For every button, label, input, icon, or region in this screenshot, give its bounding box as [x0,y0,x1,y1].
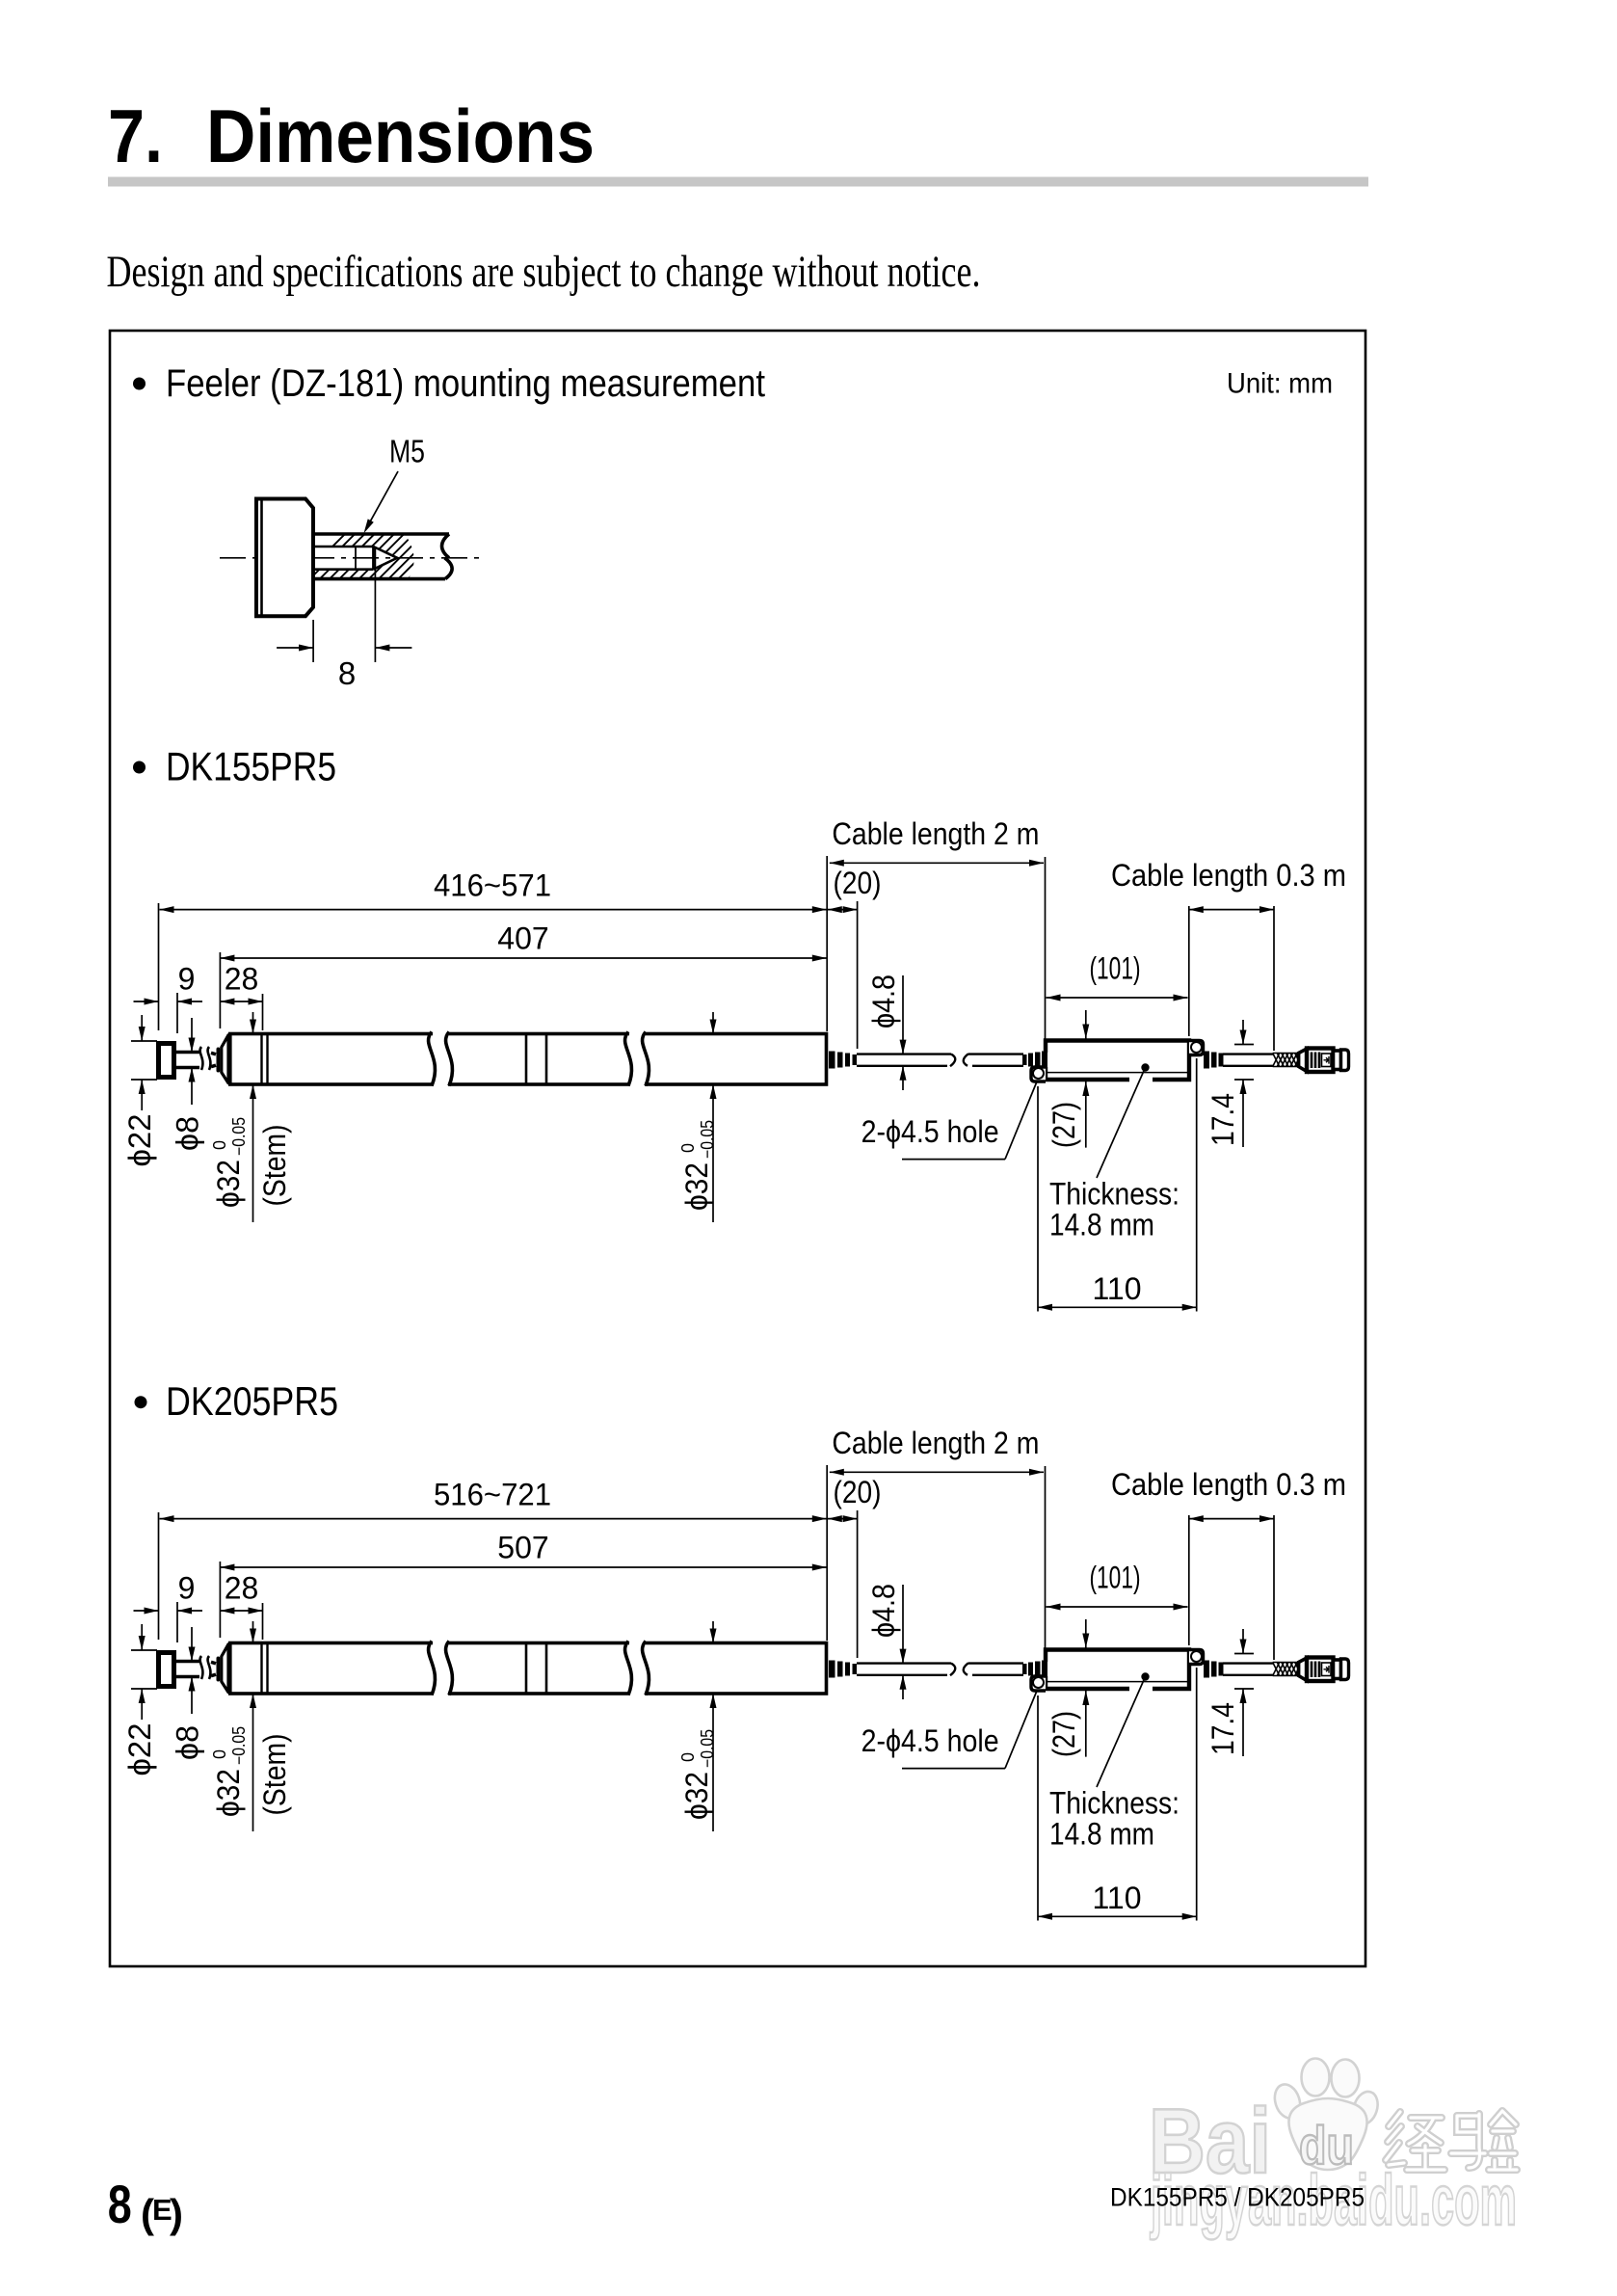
svg-text:ϕ8: ϕ8 [171,1116,205,1151]
contact disc ticks (phi22) [131,1649,157,1651]
barrel mid joint lines [525,1644,528,1693]
connector icon [1322,1663,1332,1676]
bullet: DK205PR5 heading [135,1396,147,1408]
leader Thickness [1097,1068,1146,1179]
connector collar [1334,1051,1341,1070]
svg-text:Design and specifications are: Design and specifications are subject to… [107,247,981,297]
barrel nose cone [222,1644,228,1693]
svg-text:ϕ22: ϕ22 [122,1723,157,1776]
connector body [1307,1049,1334,1073]
svg-text:28: 28 [225,1571,259,1606]
cable (2 m) [857,1662,951,1664]
extension line: cable boot end (x=889) [857,1510,859,1658]
svg-text:Cable length 2 m: Cable length 2 m [832,816,1039,851]
connector taper [1299,1049,1307,1072]
extension line: 28 right (x=272) [262,994,264,1030]
svg-text:DK155PR5: DK155PR5 [166,744,336,789]
dimension 17.4 [1234,1653,1254,1655]
svg-text:(101): (101) [1090,951,1141,986]
svg-text:Cable length 0.3 m: Cable length 0.3 m [1111,1467,1346,1502]
svg-text:0: 0 [678,1752,698,1762]
connector icon [1322,1054,1332,1067]
svg-text:Cable length 0.3 m: Cable length 0.3 m [1111,858,1346,893]
svg-text:(27): (27) [1047,1102,1081,1148]
extension line: overall-length left (x=164) [158,1512,160,1640]
contact disc ticks (phi22) [131,1040,157,1042]
svg-text:−0.05: −0.05 [698,1120,717,1159]
svg-text:Feeler (DZ-181) mounting measu: Feeler (DZ-181) mounting measurement [166,362,765,405]
outer frame [110,331,1365,1966]
svg-text:ϕ32: ϕ32 [679,1162,714,1211]
dimension 9 [134,1610,159,1612]
svg-text:110: 110 [1092,1881,1141,1915]
svg-text:(20): (20) [834,1475,882,1509]
cable break [950,1054,968,1066]
bullet: Feeler heading [133,378,146,390]
cable break [950,1663,968,1675]
cable boot out of relay box [1204,1052,1209,1069]
svg-text:ϕ4.8: ϕ4.8 [866,974,901,1028]
svg-text:−0.05: −0.05 [229,1726,249,1765]
dimension phi32 mid-barrel [712,1621,714,1643]
title underline bar [108,177,1368,187]
svg-text:−0.05: −0.05 [698,1729,717,1768]
spindle break [200,1047,211,1070]
feeler thread bore [313,546,373,548]
svg-text:516~721: 516~721 [434,1478,551,1512]
cable boot out of relay box [1204,1661,1209,1678]
dimension Cable length 2 m [830,862,1044,864]
feeler knurled head [256,499,313,617]
svg-text:9: 9 [178,1571,196,1606]
extension line: cable boot end (x=889) [857,901,859,1049]
dimension 507 [220,1566,826,1568]
dimension phi4.8 [902,1585,904,1664]
svg-text:17.4: 17.4 [1206,1702,1240,1755]
dimension 9 [134,1001,159,1002]
svg-text:407: 407 [497,921,548,956]
cable boot at barrel [829,1052,835,1069]
svg-text:Unit: mm: Unit: mm [1227,368,1333,400]
svg-text:2-ϕ4.5 hole: 2-ϕ4.5 hole [862,1114,999,1149]
probe contact disc [159,1044,174,1078]
barrel mid joint lines [525,1035,528,1083]
feeler centerline [220,557,482,559]
left ear screw [1033,1677,1044,1688]
dimension (20) [828,909,858,911]
relay box left mounting ear [1031,1676,1046,1691]
right ear screw [1191,1651,1202,1662]
extension line: cable 2m right (x=1084) [1045,857,1047,1051]
barrel break left [433,1641,448,1696]
svg-text:(Stem): (Stem) [257,1125,292,1207]
spindle break [200,1656,211,1679]
extension line: cable 0.3m right (x=1322) [1273,906,1275,1051]
svg-text:ϕ8: ϕ8 [171,1725,205,1760]
svg-text:17.4: 17.4 [1206,1093,1240,1146]
cable boot at barrel [829,1661,835,1678]
cable (0.3 m) [1223,1662,1273,1664]
dimension phi32 mid-barrel [712,1012,714,1034]
dimension phi4.8 [902,975,904,1055]
connector braid [1273,1663,1307,1676]
svg-text:416~571: 416~571 [434,868,551,903]
dimension (101) [1047,997,1188,999]
dimension 28 [220,1001,262,1002]
cable (2 m) [857,1053,951,1055]
dimension Cable length 2 m [830,1471,1044,1473]
probe barrel [230,1643,827,1695]
svg-text:ϕ4.8: ϕ4.8 [866,1584,901,1638]
svg-text:−0.05: −0.05 [229,1117,249,1156]
dimension 28 [220,1610,262,1612]
right ear screw [1191,1042,1202,1053]
dimension overall length 416~571 [160,909,827,911]
barrel break left [433,1031,448,1087]
dimension Cable length 0.3 m [1189,909,1274,911]
extension line: cable 2m right (x=1084) [1045,1466,1047,1660]
dimension (27) [1085,1010,1087,1039]
svg-text:Thickness:: Thickness: [1049,1786,1180,1821]
extension line: barrel end (x=858) [826,1465,828,1641]
extension line: 9 right / disc right [176,1602,178,1642]
svg-text:DK205PR5: DK205PR5 [166,1378,338,1424]
svg-text:9: 9 [178,962,196,997]
extension line: cable 0.3m right (x=1322) [1273,1515,1275,1660]
probe barrel [230,1034,827,1085]
svg-text:14.8 mm: 14.8 mm [1049,1817,1154,1852]
dimension (27) [1085,1619,1087,1648]
connector end cap [1341,1659,1349,1680]
connector collar [1334,1660,1341,1679]
svg-text:(101): (101) [1090,1561,1141,1595]
svg-text:(20): (20) [834,866,882,900]
svg-text:M5: M5 [389,434,425,469]
dimension Cable length 0.3 m [1189,1518,1274,1520]
cable boot into relay box [1022,1664,1027,1674]
svg-text:DK155PR5 / DK205PR5: DK155PR5 / DK205PR5 [1110,2183,1365,2212]
extension line: box right (x=1234) [1188,906,1190,1036]
dimension phi32 (Stem) [252,1012,254,1034]
spindle tip [217,1657,221,1682]
extension line: 407 &amp; 28 left (x=228) [219,1562,221,1638]
relay box body [1046,1041,1189,1081]
extension line: 407 &amp; 28 left (x=228) [219,952,221,1028]
spindle tip [217,1048,221,1073]
leader 2-phi4.5 hole [902,1768,1005,1770]
dimension 8 (feeler) [312,620,314,662]
relay box lid line [1047,1072,1188,1074]
svg-text:0: 0 [210,1140,229,1150]
svg-text:110: 110 [1092,1271,1141,1306]
dimension phi22 [141,1624,143,1650]
svg-text:Thickness:: Thickness: [1049,1177,1180,1212]
cable (0.3 m) [1223,1053,1273,1055]
extension line: 28 right (x=272) [262,1603,264,1640]
dimension (20) [828,1518,858,1520]
extension line: overall-length left (x=164) [158,903,160,1030]
connector body [1307,1658,1334,1682]
svg-text:8: 8 [108,2174,132,2234]
svg-text:14.8 mm: 14.8 mm [1049,1208,1154,1242]
connector taper [1299,1658,1307,1681]
cable boot into relay box [1022,1055,1027,1065]
probe spindle (phi8) [176,1660,199,1664]
barrel nose cone [222,1035,228,1083]
relay box right mounting ear [1189,1650,1204,1665]
barrel break right [629,1641,645,1696]
connector end cap [1341,1050,1349,1071]
dimension phi8 [191,1018,193,1053]
svg-text:(27): (27) [1047,1711,1081,1757]
watermark Baidu Jingyan [1149,2059,1517,2241]
dimension overall length 516~721 [160,1518,827,1520]
svg-text:(Stem): (Stem) [257,1734,292,1816]
barrel front rings [260,1035,262,1083]
svg-text:0: 0 [678,1143,698,1153]
svg-text:507: 507 [497,1531,548,1565]
svg-text:0: 0 [210,1749,229,1759]
dimension (101) [1047,1606,1188,1608]
svg-text:): ) [170,2191,183,2236]
svg-text:Cable length 2 m: Cable length 2 m [832,1426,1039,1460]
svg-text:2-ϕ4.5 hole: 2-ϕ4.5 hole [862,1723,999,1758]
svg-text:ϕ32: ϕ32 [679,1772,714,1820]
extension line: box right (x=1234) [1188,1515,1190,1645]
dimension 17.4 [1234,1044,1254,1046]
relay box left mounting ear [1031,1067,1046,1081]
leader Thickness [1097,1677,1146,1788]
probe contact disc [159,1653,174,1687]
dimension phi8 [191,1627,193,1662]
dimension phi22 [141,1015,143,1041]
svg-text:ϕ32: ϕ32 [211,1769,246,1817]
leader 2-phi4.5 hole [902,1159,1005,1161]
svg-text:ϕ22: ϕ22 [122,1114,157,1167]
left ear screw [1033,1068,1044,1079]
relay box body [1046,1650,1189,1690]
feeler shaft outline [313,532,449,536]
extension line: barrel end (x=858) [826,856,828,1031]
svg-text:28: 28 [225,962,259,997]
dimension phi32 (Stem) [252,1621,254,1643]
svg-text:ϕ32: ϕ32 [211,1160,246,1208]
bullet: DK155PR5 heading [133,761,146,774]
probe spindle (phi8) [176,1051,199,1055]
dimension 110 [1037,1695,1039,1921]
relay box right mounting ear [1189,1041,1204,1055]
svg-text:7.: 7. [108,93,163,178]
relay box lid line [1047,1681,1188,1683]
extension line: 9 right / disc right [176,993,178,1033]
dimension 407 [220,957,826,959]
dimension 110 [1037,1086,1039,1312]
barrel front rings [260,1644,262,1693]
connector braid [1273,1054,1307,1067]
feeler shaft break end [442,534,453,579]
svg-text:Dimensions: Dimensions [206,93,595,178]
svg-text:8: 8 [338,655,356,691]
barrel break right [629,1031,645,1087]
